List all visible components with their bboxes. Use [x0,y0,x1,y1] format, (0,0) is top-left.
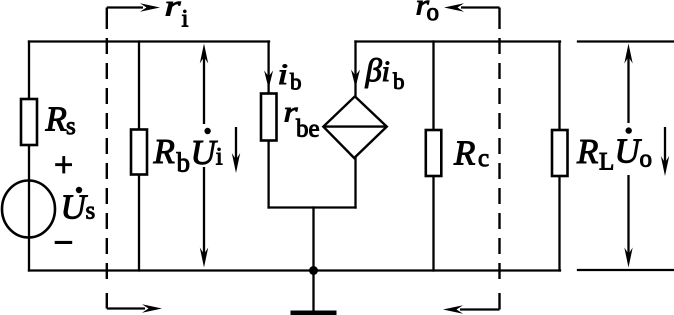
svg-text:R: R [153,132,175,171]
svg-text:c: c [478,145,489,172]
svg-text:r: r [165,0,181,23]
svg-text:o: o [427,0,440,26]
svg-text:β: β [365,53,383,89]
svg-text:U: U [61,187,89,226]
svg-text:U: U [615,131,643,170]
svg-text:R: R [45,100,67,139]
svg-text:U: U [191,133,219,172]
svg-text:R: R [576,132,598,171]
svg-text:i: i [382,55,391,88]
svg-text:i: i [182,6,189,33]
svg-text:b: b [290,70,302,95]
svg-text:b: b [177,148,191,178]
svg-text:R: R [453,133,475,172]
svg-text:s: s [86,198,96,225]
svg-text:be: be [296,116,320,143]
svg-text:L: L [599,148,614,175]
svg-text:s: s [66,113,76,140]
svg-text:i: i [278,58,289,91]
svg-text:o: o [640,145,653,172]
svg-text:b: b [393,69,405,94]
svg-text:i: i [216,144,223,171]
